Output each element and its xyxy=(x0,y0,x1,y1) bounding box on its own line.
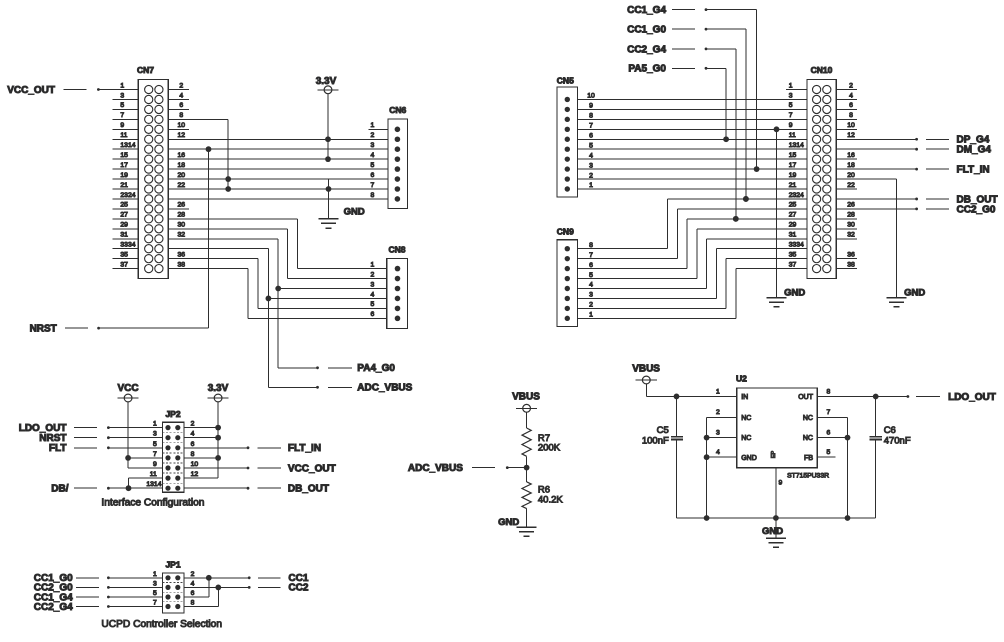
svg-text:10: 10 xyxy=(178,122,186,129)
svg-text:ST715PU33R: ST715PU33R xyxy=(787,473,829,480)
svg-text:100nF: 100nF xyxy=(642,435,669,446)
svg-text:1314: 1314 xyxy=(789,142,804,149)
svg-text:17: 17 xyxy=(120,162,128,169)
svg-text:32: 32 xyxy=(178,232,186,239)
svg-text:GND: GND xyxy=(762,526,783,537)
svg-text:7: 7 xyxy=(789,112,793,119)
svg-text:4: 4 xyxy=(589,152,593,159)
svg-text:3: 3 xyxy=(589,162,593,169)
svg-text:CC2_G4: CC2_G4 xyxy=(627,44,666,55)
svg-text:PA4_G0: PA4_G0 xyxy=(357,363,395,374)
svg-text:LDO_OUT: LDO_OUT xyxy=(948,392,996,403)
svg-text:29: 29 xyxy=(120,222,128,229)
svg-text:15: 15 xyxy=(789,152,797,159)
svg-text:GND: GND xyxy=(344,207,365,218)
svg-text:OUT: OUT xyxy=(798,394,814,401)
svg-text:GND: GND xyxy=(741,455,757,462)
svg-text:2: 2 xyxy=(371,132,375,139)
svg-text:31: 31 xyxy=(120,232,128,239)
svg-text:5: 5 xyxy=(789,102,793,109)
svg-text:25: 25 xyxy=(120,202,128,209)
svg-text:9: 9 xyxy=(589,103,593,110)
svg-text:38: 38 xyxy=(178,261,186,268)
svg-text:35: 35 xyxy=(120,251,128,258)
svg-text:37: 37 xyxy=(120,261,128,268)
svg-text:36: 36 xyxy=(178,251,186,258)
svg-text:1: 1 xyxy=(716,388,720,395)
svg-text:GND: GND xyxy=(784,287,805,298)
svg-text:CC2: CC2 xyxy=(288,583,308,594)
svg-text:27: 27 xyxy=(120,212,128,219)
svg-text:6: 6 xyxy=(371,311,375,318)
svg-text:470nF: 470nF xyxy=(884,435,911,446)
svg-text:NC: NC xyxy=(803,415,813,422)
svg-text:FLT_IN: FLT_IN xyxy=(288,443,321,454)
svg-text:29: 29 xyxy=(789,222,797,229)
svg-text:5: 5 xyxy=(120,102,124,109)
svg-text:19: 19 xyxy=(789,172,797,179)
svg-text:4: 4 xyxy=(371,291,375,298)
svg-text:18: 18 xyxy=(178,162,186,169)
svg-text:4: 4 xyxy=(191,580,195,587)
svg-text:CN7: CN7 xyxy=(137,65,154,75)
svg-text:4: 4 xyxy=(179,92,183,99)
svg-text:PA5_G0: PA5_G0 xyxy=(628,64,666,75)
svg-text:3: 3 xyxy=(371,142,375,149)
svg-text:CC1_G4: CC1_G4 xyxy=(627,5,666,16)
svg-text:5: 5 xyxy=(589,142,593,149)
svg-text:21: 21 xyxy=(120,182,128,189)
svg-text:3334: 3334 xyxy=(789,242,804,249)
svg-text:20: 20 xyxy=(847,172,855,179)
svg-text:3: 3 xyxy=(120,92,124,99)
svg-text:8: 8 xyxy=(191,451,195,458)
svg-text:GND: GND xyxy=(904,287,925,298)
svg-text:9: 9 xyxy=(789,122,793,129)
svg-text:4: 4 xyxy=(371,152,375,159)
svg-text:8: 8 xyxy=(371,192,375,199)
svg-text:CC2_G0: CC2_G0 xyxy=(957,204,996,215)
svg-text:10: 10 xyxy=(191,461,199,468)
svg-text:7: 7 xyxy=(371,182,375,189)
svg-text:5: 5 xyxy=(589,272,593,279)
svg-text:NC: NC xyxy=(741,435,751,442)
svg-text:1: 1 xyxy=(120,82,124,89)
svg-text:JP2: JP2 xyxy=(165,409,180,419)
svg-text:1: 1 xyxy=(589,182,593,189)
svg-text:3334: 3334 xyxy=(120,242,135,249)
svg-text:1: 1 xyxy=(789,82,793,89)
svg-text:NRST: NRST xyxy=(30,323,57,334)
svg-text:NC: NC xyxy=(741,415,751,422)
svg-text:15: 15 xyxy=(120,152,128,159)
svg-text:7: 7 xyxy=(153,600,157,607)
svg-text:11: 11 xyxy=(120,132,127,139)
svg-text:4: 4 xyxy=(716,449,720,456)
svg-text:30: 30 xyxy=(847,222,855,229)
svg-text:7: 7 xyxy=(827,409,831,416)
svg-text:25: 25 xyxy=(789,202,797,209)
svg-text:1: 1 xyxy=(371,122,375,129)
svg-text:17: 17 xyxy=(789,162,797,169)
svg-text:ADC_VBUS: ADC_VBUS xyxy=(357,383,412,394)
svg-text:12: 12 xyxy=(847,132,855,139)
svg-text:NC: NC xyxy=(803,435,813,442)
svg-text:2: 2 xyxy=(179,82,183,89)
svg-text:5: 5 xyxy=(153,441,157,448)
svg-text:3: 3 xyxy=(789,92,793,99)
svg-text:1314: 1314 xyxy=(146,481,161,488)
svg-text:2: 2 xyxy=(191,421,195,428)
svg-text:9: 9 xyxy=(153,461,157,468)
svg-text:VCC_OUT: VCC_OUT xyxy=(288,463,336,474)
svg-text:27: 27 xyxy=(789,212,797,219)
svg-text:CN10: CN10 xyxy=(811,65,833,75)
svg-text:2: 2 xyxy=(849,82,853,89)
svg-text:1: 1 xyxy=(589,312,593,319)
svg-text:2: 2 xyxy=(716,409,720,416)
svg-text:35: 35 xyxy=(789,251,797,258)
svg-text:ADC_VBUS: ADC_VBUS xyxy=(408,463,463,474)
svg-text:3: 3 xyxy=(589,292,593,299)
svg-text:VCC_OUT: VCC_OUT xyxy=(7,85,55,96)
svg-text:30: 30 xyxy=(178,222,186,229)
svg-text:3: 3 xyxy=(371,281,375,288)
svg-text:26: 26 xyxy=(847,202,855,209)
svg-text:4: 4 xyxy=(849,92,853,99)
svg-text:1314: 1314 xyxy=(120,142,135,149)
svg-text:C6: C6 xyxy=(884,425,896,436)
svg-text:2324: 2324 xyxy=(120,192,135,199)
svg-text:7: 7 xyxy=(120,112,124,119)
svg-text:5: 5 xyxy=(371,162,375,169)
svg-text:CC1_G0: CC1_G0 xyxy=(627,25,666,36)
svg-text:6: 6 xyxy=(371,172,375,179)
svg-text:C5: C5 xyxy=(657,425,669,436)
svg-text:2: 2 xyxy=(371,271,375,278)
svg-text:16: 16 xyxy=(178,152,186,159)
svg-text:6: 6 xyxy=(191,441,195,448)
svg-text:37: 37 xyxy=(789,261,797,268)
svg-text:DB_OUT: DB_OUT xyxy=(288,484,329,495)
svg-text:28: 28 xyxy=(178,212,186,219)
svg-text:10: 10 xyxy=(587,93,595,100)
svg-text:31: 31 xyxy=(789,232,797,239)
svg-text:9: 9 xyxy=(779,479,783,486)
svg-text:3.3V: 3.3V xyxy=(316,76,337,87)
svg-text:19: 19 xyxy=(120,172,128,179)
svg-text:1: 1 xyxy=(371,261,375,268)
svg-text:6: 6 xyxy=(191,590,195,597)
svg-text:VCC: VCC xyxy=(117,383,138,394)
svg-text:12: 12 xyxy=(191,471,199,478)
svg-text:DB/: DB/ xyxy=(51,483,68,494)
svg-text:Interface Configuration: Interface Configuration xyxy=(101,498,204,509)
svg-text:6: 6 xyxy=(589,132,593,139)
svg-text:3: 3 xyxy=(153,431,157,438)
svg-text:21: 21 xyxy=(789,182,797,189)
svg-text:CC2_G4: CC2_G4 xyxy=(34,602,73,613)
svg-text:3: 3 xyxy=(716,429,720,436)
svg-text:IN: IN xyxy=(741,394,748,401)
svg-text:1: 1 xyxy=(153,571,157,578)
svg-text:7: 7 xyxy=(589,123,593,130)
svg-text:8: 8 xyxy=(589,113,593,120)
svg-text:EP: EP xyxy=(771,451,777,459)
svg-text:6: 6 xyxy=(589,262,593,269)
svg-text:9: 9 xyxy=(120,122,124,129)
svg-text:6: 6 xyxy=(179,102,183,109)
svg-text:3.3V: 3.3V xyxy=(208,383,229,394)
svg-text:4: 4 xyxy=(191,431,195,438)
svg-text:36: 36 xyxy=(847,251,855,258)
svg-text:8: 8 xyxy=(827,388,831,395)
svg-text:6: 6 xyxy=(849,102,853,109)
svg-text:8: 8 xyxy=(849,112,853,119)
svg-text:32: 32 xyxy=(847,232,855,239)
svg-text:16: 16 xyxy=(847,152,855,159)
svg-text:5: 5 xyxy=(153,590,157,597)
svg-text:FLT_IN: FLT_IN xyxy=(957,165,990,176)
svg-text:20: 20 xyxy=(178,172,186,179)
svg-text:1: 1 xyxy=(153,421,157,428)
svg-text:7: 7 xyxy=(589,252,593,259)
svg-text:22: 22 xyxy=(178,182,186,189)
svg-text:JP1: JP1 xyxy=(165,560,180,570)
svg-text:8: 8 xyxy=(589,242,593,249)
svg-text:6: 6 xyxy=(827,429,831,436)
svg-text:4: 4 xyxy=(589,282,593,289)
svg-text:2: 2 xyxy=(589,172,593,179)
svg-text:UCPD Controller Selection: UCPD Controller Selection xyxy=(101,619,222,630)
svg-text:CN6: CN6 xyxy=(389,105,406,115)
svg-text:8: 8 xyxy=(179,112,183,119)
svg-text:2324: 2324 xyxy=(789,192,804,199)
svg-text:CN5: CN5 xyxy=(557,76,574,86)
svg-text:CN8: CN8 xyxy=(388,245,405,255)
svg-text:11: 11 xyxy=(150,471,157,478)
svg-text:26: 26 xyxy=(178,202,186,209)
svg-text:200K: 200K xyxy=(538,443,561,454)
svg-text:3: 3 xyxy=(153,580,157,587)
svg-text:FB: FB xyxy=(804,455,813,462)
svg-text:FLT: FLT xyxy=(49,443,67,454)
svg-text:2: 2 xyxy=(191,571,195,578)
svg-text:VBUS: VBUS xyxy=(512,392,540,403)
svg-text:5: 5 xyxy=(827,449,831,456)
svg-text:8: 8 xyxy=(191,600,195,607)
svg-text:18: 18 xyxy=(847,162,855,169)
svg-text:2: 2 xyxy=(589,302,593,309)
svg-text:40.2K: 40.2K xyxy=(538,494,563,505)
svg-text:DM_G4: DM_G4 xyxy=(957,145,992,156)
svg-text:5: 5 xyxy=(371,301,375,308)
svg-text:VBUS: VBUS xyxy=(632,364,660,375)
svg-text:U2: U2 xyxy=(736,373,747,383)
svg-text:10: 10 xyxy=(847,122,855,129)
svg-text:GND: GND xyxy=(498,517,519,528)
svg-text:CN9: CN9 xyxy=(557,227,574,237)
svg-text:7: 7 xyxy=(153,451,157,458)
svg-text:38: 38 xyxy=(847,261,855,268)
svg-text:11: 11 xyxy=(789,132,796,139)
svg-text:12: 12 xyxy=(178,132,186,139)
svg-text:28: 28 xyxy=(847,212,855,219)
svg-text:22: 22 xyxy=(847,182,855,189)
